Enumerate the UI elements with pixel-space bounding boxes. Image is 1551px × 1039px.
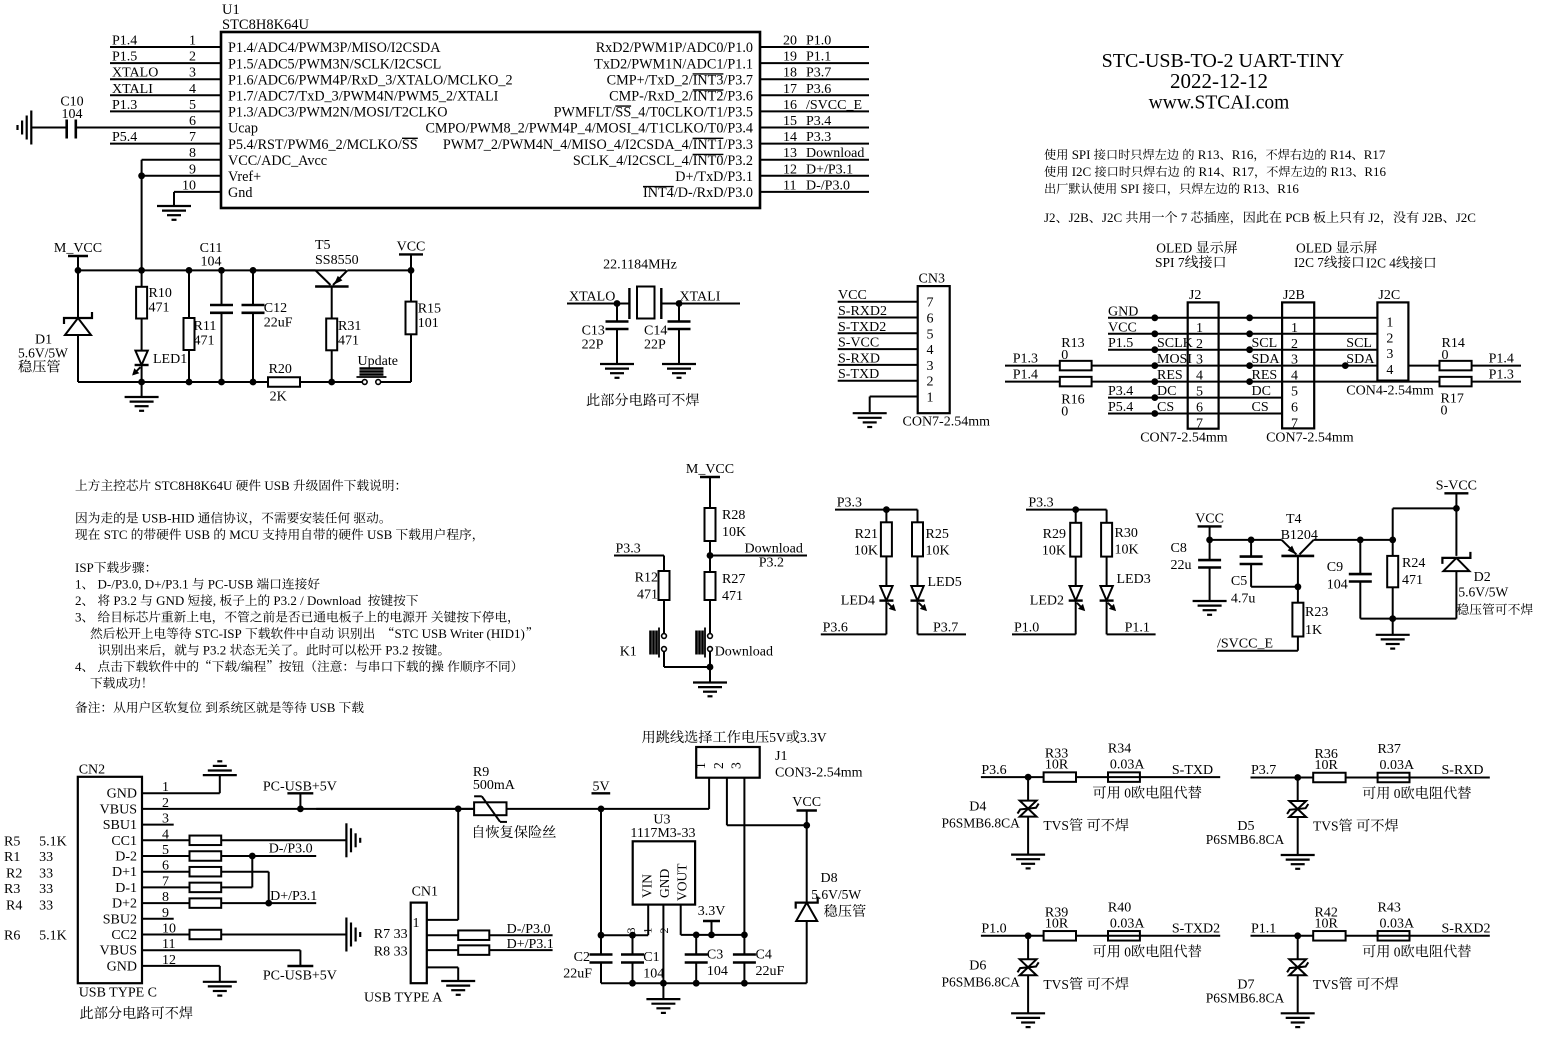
svg-text:USB TYPE C: USB TYPE C xyxy=(79,986,157,1001)
svg-text:4: 4 xyxy=(75,659,82,674)
svg-text:5: 5 xyxy=(1291,385,1298,400)
CN2 pin3 stub xyxy=(142,824,174,826)
svg-text:CS: CS xyxy=(1157,400,1174,415)
svg-text:2: 2 xyxy=(927,375,934,390)
svg-text:TVS: TVS xyxy=(1043,818,1069,833)
junction P3.6 xyxy=(1025,774,1032,781)
svg-text:P1.4: P1.4 xyxy=(112,34,137,49)
svg-text:13: 13 xyxy=(783,146,797,161)
U1 pin 16 wire xyxy=(760,110,869,112)
junction C1 bottom xyxy=(629,980,636,987)
wire D+1 to D+2 row xyxy=(268,872,270,903)
svg-text:PC-USB+5V: PC-USB+5V xyxy=(263,969,337,984)
bottom ground rail xyxy=(601,982,807,984)
svg-text:SCL: SCL xyxy=(1346,336,1372,351)
svg-text:22uF: 22uF xyxy=(756,964,785,979)
svg-text:P3.2: P3.2 xyxy=(759,556,784,571)
svg-text:CON3-2.54mm: CON3-2.54mm xyxy=(775,766,863,781)
svg-text:C9: C9 xyxy=(1327,560,1343,575)
svg-text:2: 2 xyxy=(1386,331,1393,346)
svg-text:S-TXD: S-TXD xyxy=(1172,763,1213,778)
svg-text:P3.2 / Download: P3.2 / Download xyxy=(273,593,361,608)
junction pin9 xyxy=(138,172,145,179)
J2 pin 1 junction xyxy=(1151,314,1158,321)
svg-text:471: 471 xyxy=(338,334,359,349)
svg-text:17: 17 xyxy=(783,82,797,97)
svg-text:SCL: SCL xyxy=(1252,336,1278,351)
junction S-VCC xyxy=(1453,505,1460,512)
ground U3 xyxy=(662,983,664,999)
svg-text:22.1184MHz: 22.1184MHz xyxy=(603,258,677,273)
svg-text:22u: 22u xyxy=(1171,558,1192,573)
svg-text:VCC: VCC xyxy=(1195,511,1224,526)
J2 row 5 wire xyxy=(1092,381,1440,383)
ISP instructions text xyxy=(76,479,88,490)
svg-text:CC2: CC2 xyxy=(111,928,137,943)
svg-text:RES: RES xyxy=(1252,368,1278,383)
svg-text:R24: R24 xyxy=(1402,556,1425,571)
ground C13 xyxy=(600,363,634,365)
resistor R1 (D-2) xyxy=(142,855,190,857)
J2 row 3 wire xyxy=(1108,349,1377,351)
J2 pin 7 junction xyxy=(1151,410,1158,417)
junction CN1 branch xyxy=(455,806,462,813)
U3 VOUT stub xyxy=(680,905,682,935)
ground D7 xyxy=(1281,1012,1315,1014)
svg-text:R23: R23 xyxy=(1305,605,1328,620)
rotated ground CC1 xyxy=(345,823,347,857)
svg-text:5.6V/5W: 5.6V/5W xyxy=(18,346,68,361)
svg-text:0: 0 xyxy=(1061,404,1068,419)
ground download xyxy=(693,681,727,683)
svg-text:D-2: D-2 xyxy=(115,850,137,865)
svg-text:VCC: VCC xyxy=(792,795,821,810)
svg-text:TxD2/PWM1N/ADC1/P1.1: TxD2/PWM1N/ADC1/P1.1 xyxy=(594,56,753,72)
J2B pin 5 junction xyxy=(1246,378,1253,385)
svg-text:LED1: LED1 xyxy=(153,352,187,367)
svg-text:P1.4: P1.4 xyxy=(1489,352,1514,367)
ground C8 xyxy=(1193,600,1227,602)
svg-text:33: 33 xyxy=(39,850,53,865)
svg-text:R1: R1 xyxy=(4,850,20,865)
svg-text:T5: T5 xyxy=(315,238,331,253)
svg-text:10K: 10K xyxy=(722,525,746,540)
U1 pin 2 wire xyxy=(110,62,221,64)
svg-text:D-/P3.0: D-/P3.0 xyxy=(507,922,551,937)
CN2 pin12 wire to ground xyxy=(142,965,220,967)
capacitor C2 xyxy=(590,953,613,956)
svg-text:MOSI: MOSI xyxy=(1157,352,1192,367)
svg-text:D8: D8 xyxy=(821,871,838,886)
junction bottom rail xyxy=(186,379,193,386)
svg-text:R43: R43 xyxy=(1378,900,1401,915)
pushbutton Download xyxy=(709,600,711,634)
svg-text:22uF: 22uF xyxy=(264,316,293,331)
bottom rail of M_VCC block xyxy=(78,381,363,383)
svg-text:7: 7 xyxy=(1181,210,1188,225)
svg-text:5: 5 xyxy=(927,327,934,342)
svg-text:STC: STC xyxy=(104,527,128,542)
U1 pin 11 wire xyxy=(760,191,869,193)
svg-text:D+1: D+1 xyxy=(112,865,137,880)
svg-text:OLED: OLED xyxy=(1296,241,1332,256)
CN2 pin11 wire xyxy=(142,949,300,951)
capacitor C4 xyxy=(743,935,745,955)
svg-text:P1.5: P1.5 xyxy=(112,50,137,65)
svg-text:101: 101 xyxy=(418,316,439,331)
J1 pin1 wire xyxy=(708,778,710,809)
resistor R2 (D+1) xyxy=(142,871,190,873)
resistor R31 xyxy=(331,287,333,319)
resistor R8 xyxy=(427,949,458,951)
svg-text:R16: R16 xyxy=(1232,147,1254,162)
junction M_VCC rail xyxy=(138,267,145,274)
capacitor C1 xyxy=(632,935,634,954)
svg-text:D4: D4 xyxy=(969,800,986,815)
resistor R7 xyxy=(427,934,458,936)
wire R39 to R40 xyxy=(1076,935,1220,937)
J2 row 7 wire xyxy=(1108,413,1282,415)
svg-text:GND: GND xyxy=(107,787,137,802)
J2 pin 5 junction xyxy=(1151,378,1158,385)
svg-text:R34: R34 xyxy=(1108,742,1131,757)
svg-text:LED4: LED4 xyxy=(841,594,875,609)
svg-text:R20: R20 xyxy=(269,362,292,377)
svg-text:4: 4 xyxy=(189,82,196,97)
svg-text:R2: R2 xyxy=(6,867,22,882)
svg-text:0: 0 xyxy=(1441,403,1448,418)
crystal note text xyxy=(587,393,600,406)
resistor R36 xyxy=(1313,773,1345,783)
svg-text:P1.1: P1.1 xyxy=(806,50,831,65)
connector J2 box xyxy=(1188,302,1219,428)
junction C3 top xyxy=(693,932,700,939)
svg-text:15: 15 xyxy=(783,114,797,129)
svg-text:Vref+: Vref+ xyxy=(228,169,261,185)
CN3 pin 3 wire xyxy=(838,364,918,366)
svg-text:USB: USB xyxy=(310,700,336,715)
svg-text:P5.4: P5.4 xyxy=(112,130,137,145)
CN2 pin9 stub xyxy=(142,918,174,920)
CN3 pin 2 wire xyxy=(838,380,918,382)
J2B pin 2 junction xyxy=(1246,330,1253,337)
svg-text:GND: GND xyxy=(657,869,672,898)
svg-text:USB TYPE A: USB TYPE A xyxy=(364,991,443,1006)
5V rail xyxy=(506,808,709,810)
svg-text:R31: R31 xyxy=(338,319,361,334)
wire pins 8-9 to M_VCC rail xyxy=(141,160,143,271)
0-ohm note text xyxy=(1093,945,1106,958)
svg-text:4: 4 xyxy=(927,343,934,358)
svg-text:8: 8 xyxy=(189,146,196,161)
junction bottom rail xyxy=(218,379,225,386)
connector CN3 box xyxy=(918,286,950,413)
resistor R4 (D+2) xyxy=(142,902,190,904)
CN3 pin 4 wire xyxy=(838,348,918,350)
U1 pin 6 wire xyxy=(76,127,221,129)
U1 pin 20 wire xyxy=(760,46,869,48)
0-ohm note text xyxy=(1363,945,1376,958)
svg-text:R25: R25 xyxy=(926,527,949,542)
TVS diode D7 xyxy=(1297,936,1299,959)
svg-text:10: 10 xyxy=(182,178,196,193)
svg-text:STC8H8K64U: STC8H8K64U xyxy=(154,478,233,493)
svg-text:OLED: OLED xyxy=(1156,241,1192,256)
J2 pin 3 junction xyxy=(1151,346,1158,353)
resistor R10 xyxy=(141,270,143,286)
svg-text:CN3: CN3 xyxy=(919,272,945,287)
svg-text:CC1: CC1 xyxy=(111,834,137,849)
svg-text:R12: R12 xyxy=(635,571,658,586)
fuse R37 xyxy=(1378,773,1410,783)
svg-text:P3.3: P3.3 xyxy=(1028,496,1053,511)
svg-text:J2B: J2B xyxy=(1069,210,1090,225)
svg-text:M_VCC: M_VCC xyxy=(54,241,102,256)
svg-text:0.03A: 0.03A xyxy=(1380,916,1416,931)
svg-text:P6SMB6.8CA: P6SMB6.8CA xyxy=(942,816,1021,831)
svg-text:P3.3: P3.3 xyxy=(616,542,641,557)
svg-text:VBUS: VBUS xyxy=(100,944,137,959)
svg-text:P3.6: P3.6 xyxy=(981,763,1006,778)
svg-text:2022-12-12: 2022-12-12 xyxy=(1170,69,1268,93)
svg-text:SPI 7: SPI 7 xyxy=(1155,255,1185,270)
svg-text:R16: R16 xyxy=(1277,181,1299,196)
TVS diode D4 xyxy=(1027,777,1029,800)
VBUS to R9 wire xyxy=(316,808,474,810)
svg-text:XTALI: XTALI xyxy=(680,290,721,305)
svg-text:9: 9 xyxy=(189,162,196,177)
svg-text:USB: USB xyxy=(264,478,290,493)
svg-text:R11: R11 xyxy=(194,319,217,334)
svg-text:P1.3: P1.3 xyxy=(1489,368,1514,383)
svg-text:CMP-/RxD_2/INT2/P3.6: CMP-/RxD_2/INT2/P3.6 xyxy=(609,89,753,105)
svg-text:CON7-2.54mm: CON7-2.54mm xyxy=(1266,431,1354,446)
svg-text:R29: R29 xyxy=(1043,527,1066,542)
svg-text:SDA: SDA xyxy=(1346,352,1375,367)
fuse R40 xyxy=(1108,931,1140,941)
svg-text:22P: 22P xyxy=(582,338,604,353)
svg-text:P1.1: P1.1 xyxy=(1251,922,1276,937)
pushbutton Update xyxy=(332,381,363,383)
svg-text:R4: R4 xyxy=(6,899,22,914)
junction bottom rail xyxy=(250,379,257,386)
svg-text:SDA: SDA xyxy=(1252,352,1281,367)
svg-text:P3.7: P3.7 xyxy=(806,66,831,81)
svg-text:PCB: PCB xyxy=(1285,210,1310,225)
svg-text:I2C: I2C xyxy=(1072,164,1092,179)
resistor R25 xyxy=(917,510,919,523)
svg-text:3: 3 xyxy=(927,359,934,374)
svg-text:P3.6: P3.6 xyxy=(806,82,831,97)
U1 pin 15 wire xyxy=(760,127,869,129)
svg-text:XTALO: XTALO xyxy=(569,290,615,305)
svg-text:P1.7/ADC7/TxD_3/PWM4N/PWM5_2/X: P1.7/ADC7/TxD_3/PWM4N/PWM5_2/XTALI xyxy=(228,89,499,105)
svg-text:MCU: MCU xyxy=(229,527,259,542)
J2B pin 3 junction xyxy=(1246,346,1253,353)
svg-text:S-VCC: S-VCC xyxy=(1436,478,1477,493)
svg-text:0: 0 xyxy=(1394,786,1401,801)
resistor R12 xyxy=(659,571,670,600)
svg-text:D+/P3.1: D+/P3.1 xyxy=(507,937,554,952)
junction C4 bottom xyxy=(741,980,748,987)
svg-text:D-1: D-1 xyxy=(115,881,137,896)
svg-text:D2: D2 xyxy=(1474,570,1491,585)
wire 5V down to C2 xyxy=(600,809,602,935)
svg-text:P1.0: P1.0 xyxy=(806,34,831,49)
svg-text:3.3V: 3.3V xyxy=(698,904,726,919)
svg-text:J2C: J2C xyxy=(1456,210,1476,225)
J2 row 1 wire xyxy=(1108,317,1377,319)
svg-text:3: 3 xyxy=(189,66,196,81)
resistor R33 xyxy=(1044,772,1076,782)
svg-text:5.1K: 5.1K xyxy=(39,834,67,849)
CN2 pin1 wire to ground xyxy=(142,792,220,794)
U1 pin 12 wire xyxy=(760,175,869,177)
CN3 pin 5 wire xyxy=(838,332,918,334)
svg-text:/: / xyxy=(237,659,241,674)
J2C SDA junction xyxy=(1342,362,1349,369)
svg-text:R16: R16 xyxy=(1364,164,1386,179)
CN3 pin 7 wire xyxy=(838,301,918,303)
svg-text:VCC: VCC xyxy=(838,288,867,303)
connector CN2 box xyxy=(78,777,142,983)
junction Download node xyxy=(707,552,714,559)
ground U1 pin10 xyxy=(157,205,191,207)
svg-text:33: 33 xyxy=(39,882,53,897)
CN3 pin 6 wire xyxy=(838,317,918,319)
svg-text:D+/TxD/P3.1: D+/TxD/P3.1 xyxy=(675,169,753,185)
wire VBUS down to CN1 xyxy=(457,809,459,920)
svg-text:R14: R14 xyxy=(1199,164,1221,179)
junction VCC D8 xyxy=(803,822,810,829)
wire pin10 to ground xyxy=(173,192,175,206)
connector J2B box xyxy=(1282,302,1314,428)
svg-text:/SVCC_E: /SVCC_E xyxy=(806,98,862,113)
svg-text:XTALI: XTALI xyxy=(112,82,153,97)
junction R24 bottom xyxy=(1389,615,1396,622)
svg-text:J2C: J2C xyxy=(1378,288,1400,303)
svg-text:STC USB Writer (HID1): STC USB Writer (HID1) xyxy=(395,626,525,641)
svg-text:10R: 10R xyxy=(1045,916,1069,931)
svg-text:R7 33: R7 33 xyxy=(374,927,408,942)
CN3 pin1 to ground xyxy=(869,397,871,413)
svg-text:SBU1: SBU1 xyxy=(103,818,137,833)
svg-text:5: 5 xyxy=(189,98,196,113)
junction P3.3 (2) xyxy=(1072,506,1079,513)
resistor R24 xyxy=(1392,540,1394,556)
CN3 pin 1 wire xyxy=(870,396,918,398)
TVS diode D6 xyxy=(1027,936,1029,959)
CN2 note text xyxy=(80,1006,93,1019)
svg-text:C14: C14 xyxy=(644,324,667,339)
svg-text:2: 2 xyxy=(189,50,196,65)
J2 row 6 wire xyxy=(1108,397,1282,399)
VBUS rail xyxy=(142,808,474,810)
svg-text:R28: R28 xyxy=(722,508,745,523)
svg-text:Download: Download xyxy=(745,542,803,557)
resistor R11 xyxy=(188,270,190,318)
zener D8 xyxy=(806,825,808,902)
U1 pin 18 wire xyxy=(760,78,869,80)
svg-text:LED2: LED2 xyxy=(1030,594,1064,609)
svg-text:18: 18 xyxy=(783,66,797,81)
svg-text:R21: R21 xyxy=(855,527,878,542)
CN1 pin4 wire to ground xyxy=(427,966,458,968)
ground D6 xyxy=(1011,1012,1045,1014)
svg-text:S-RXD: S-RXD xyxy=(1442,763,1484,778)
LED LED2 xyxy=(1075,557,1077,586)
U1 pin 10 wire xyxy=(174,191,221,193)
svg-text:3: 3 xyxy=(75,610,82,625)
svg-text:CN2: CN2 xyxy=(79,763,105,778)
bottom rail T4 section xyxy=(1360,618,1456,620)
svg-text:C8: C8 xyxy=(1171,541,1187,556)
inverted ground CN2 pin1 xyxy=(203,774,237,776)
junction P1.1 xyxy=(1294,932,1301,939)
power flag PC-USB+5V bottom xyxy=(287,965,313,967)
junction 5V xyxy=(598,806,605,813)
T4 base wire xyxy=(1297,556,1299,587)
svg-text:1: 1 xyxy=(927,391,934,406)
junction GND stub xyxy=(660,980,667,987)
svg-text:10R: 10R xyxy=(1315,916,1339,931)
connector CN1 box xyxy=(411,903,427,984)
svg-text:SS8550: SS8550 xyxy=(315,253,359,268)
CN1 pin1 wire xyxy=(427,919,458,921)
svg-text:P1.3: P1.3 xyxy=(1013,352,1038,367)
junction M_VCC rail xyxy=(250,267,257,274)
svg-text:R30: R30 xyxy=(1115,526,1138,541)
svg-text:R17: R17 xyxy=(1232,164,1254,179)
svg-text:Gnd: Gnd xyxy=(228,185,252,201)
svg-text:10R: 10R xyxy=(1045,758,1069,773)
U1 pin 13 wire xyxy=(760,159,869,161)
svg-text:P5.4: P5.4 xyxy=(1108,400,1133,415)
svg-text:VBUS: VBUS xyxy=(100,802,137,817)
svg-text:471: 471 xyxy=(722,589,743,604)
U1 pin 7 wire xyxy=(110,143,221,145)
svg-text:1: 1 xyxy=(1386,315,1393,330)
U1 pin 17 wire xyxy=(760,94,869,96)
U1 pin 1 wire xyxy=(110,46,221,48)
svg-text:P1.6/ADC6/PWM4P/RxD_3/XTALO/MC: P1.6/ADC6/PWM4P/RxD_3/XTALO/MCLKO_2 xyxy=(228,72,513,88)
svg-text:4: 4 xyxy=(1386,363,1393,378)
notes SPI/I2C text xyxy=(1044,149,1055,160)
svg-text:P3.2: P3.2 xyxy=(203,643,226,658)
svg-text:D+2: D+2 xyxy=(112,897,137,912)
svg-text:10R: 10R xyxy=(1315,758,1339,773)
svg-text:1K: 1K xyxy=(1305,623,1322,638)
U1 pin 9 wire xyxy=(142,175,221,177)
svg-text:6: 6 xyxy=(1291,401,1298,416)
junction D+ node xyxy=(265,900,272,907)
svg-text:CMPO/PWM8_2/PWM4P_4/MOSI_4/T1C: CMPO/PWM8_2/PWM4P_4/MOSI_4/T1CLKO/T0/P3.… xyxy=(425,121,753,137)
svg-text:J2: J2 xyxy=(1189,288,1201,303)
resistor R16 xyxy=(1060,377,1092,387)
IC U1 STC8H8K64U box xyxy=(221,32,760,208)
wire R33 to R34 xyxy=(1076,776,1220,778)
junction XTALO xyxy=(614,300,621,307)
svg-text:P1.5: P1.5 xyxy=(1108,336,1133,351)
svg-text:VIN: VIN xyxy=(640,874,655,898)
svg-text:6: 6 xyxy=(927,312,934,327)
svg-text:R13: R13 xyxy=(1331,164,1353,179)
svg-text:104: 104 xyxy=(1327,578,1348,593)
LED LED5 xyxy=(917,556,919,586)
svg-text:ISP: ISP xyxy=(75,560,94,575)
J2 row 4 wire xyxy=(1092,365,1378,367)
LED LED4 xyxy=(885,556,887,586)
